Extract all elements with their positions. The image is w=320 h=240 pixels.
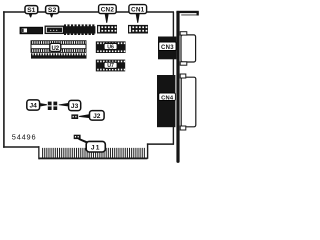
wire board edge step-down xyxy=(38,146,39,159)
node CN1 label xyxy=(129,5,147,23)
svg-text:CN1: CN1 xyxy=(131,7,145,14)
svg-text:J1: J1 xyxy=(91,144,101,151)
node J1 label xyxy=(78,138,105,152)
jumper W3 xyxy=(71,114,78,119)
wire board right edge xyxy=(173,12,174,145)
IC U2 xyxy=(31,41,86,53)
connector CN2 header xyxy=(97,25,117,34)
wire board left edge xyxy=(3,11,5,148)
svg-text:J4: J4 xyxy=(30,103,38,110)
wire board top edge xyxy=(3,11,174,13)
node J4 label xyxy=(27,100,47,110)
jumper W4 xyxy=(74,135,81,139)
IC U7 xyxy=(96,60,125,72)
svg-text:U6: U6 xyxy=(107,44,114,50)
connector CN4 xyxy=(157,75,175,127)
node S2 label xyxy=(46,6,59,18)
connector CN3 xyxy=(158,37,176,60)
node S1 label xyxy=(25,6,38,18)
node J2 label xyxy=(79,111,104,121)
svg-text:CN2: CN2 xyxy=(101,7,115,14)
switch S2 xyxy=(45,26,63,33)
connector CN3 DB9 shell xyxy=(180,32,195,65)
svg-text:S1: S1 xyxy=(27,7,36,14)
svg-text:54496: 54496 xyxy=(12,132,37,141)
svg-text:J3: J3 xyxy=(71,103,79,110)
node CN2 label xyxy=(99,5,117,23)
bracket vertical bar xyxy=(176,11,179,163)
wire board edge right of fingers xyxy=(147,143,174,158)
svg-text:S2: S2 xyxy=(48,7,57,14)
wire board bottom-left edge xyxy=(3,146,39,148)
connector CN4 DB25 shell xyxy=(180,74,196,130)
svg-text:CN4: CN4 xyxy=(161,95,174,101)
bracket top tab xyxy=(176,11,198,16)
svg-text:U7: U7 xyxy=(107,63,114,69)
edge connector fingers xyxy=(39,148,148,159)
jumper W1 xyxy=(48,102,52,110)
svg-text:U2: U2 xyxy=(51,46,59,52)
svg-text:CN3: CN3 xyxy=(161,45,174,51)
svg-text:J2: J2 xyxy=(93,113,101,120)
switch S1 xyxy=(20,27,43,34)
connector CN1 header xyxy=(128,25,148,34)
IC U6 xyxy=(96,41,126,53)
node J3 label xyxy=(59,100,81,110)
resistor network RN1 strip xyxy=(31,53,87,59)
node part number 54496 xyxy=(12,132,37,141)
IC U3 (unlabeled DIP) xyxy=(64,24,96,35)
jumper W2 xyxy=(53,102,57,110)
